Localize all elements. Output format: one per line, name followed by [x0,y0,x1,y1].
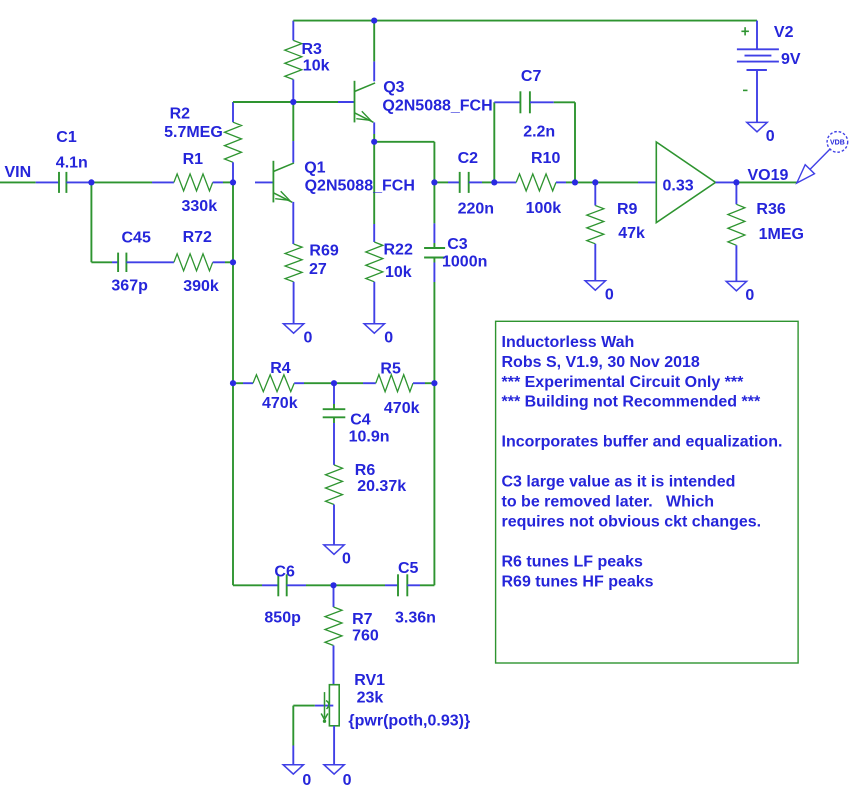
svg-text:C45: C45 [122,230,151,247]
svg-text:C5: C5 [398,560,419,577]
svg-text:VDB: VDB [830,140,845,147]
svg-text:470k: 470k [384,400,420,417]
svg-text:R10: R10 [531,150,560,167]
svg-text:Q1: Q1 [304,160,325,177]
svg-text:C2: C2 [458,150,479,167]
svg-text:0: 0 [302,772,311,789]
svg-text:10.9n: 10.9n [349,429,390,446]
svg-text:R22: R22 [384,242,413,259]
svg-text:C3: C3 [447,236,468,253]
svg-text:100k: 100k [526,200,562,217]
svg-text:R1: R1 [183,151,204,168]
svg-text:R69 tunes HF peaks: R69 tunes HF peaks [502,574,654,591]
svg-text:Q2N5088_FCH: Q2N5088_FCH [305,177,415,194]
svg-text:V2: V2 [774,24,794,41]
svg-text:R4: R4 [270,360,291,377]
svg-text:Inductorless Wah: Inductorless Wah [502,334,635,351]
svg-text:0.33: 0.33 [663,177,694,194]
svg-text:*** Experimental Circuit Only: *** Experimental Circuit Only *** [502,374,745,391]
svg-text:Incorporates buffer and equali: Incorporates buffer and equalization. [502,434,783,451]
svg-text:0: 0 [343,772,352,789]
svg-text:27: 27 [309,261,327,278]
svg-text:requires not obvious ckt chang: requires not obvious ckt changes. [502,514,762,531]
svg-text:10k: 10k [303,58,330,75]
svg-text:R5: R5 [380,361,401,378]
svg-text:R6 tunes LF peaks: R6 tunes LF peaks [502,554,643,571]
svg-text:470k: 470k [262,395,298,412]
svg-text:Robs S, V1.9, 30 Nov 2018: Robs S, V1.9, 30 Nov 2018 [502,354,700,371]
svg-text:0: 0 [304,330,313,347]
svg-text:0: 0 [605,287,614,304]
svg-text:R2: R2 [170,106,191,123]
svg-text:2.2n: 2.2n [523,124,555,141]
svg-text:to be removed later. Which: to be removed later. Which [502,494,715,511]
svg-text:R9: R9 [617,201,638,218]
svg-text:R6: R6 [355,462,376,479]
svg-text:0: 0 [342,551,351,568]
svg-text:Q2N5088_FCH: Q2N5088_FCH [382,97,492,114]
svg-text:C4: C4 [350,412,371,429]
svg-text:760: 760 [352,628,379,645]
svg-text:R36: R36 [756,201,785,218]
svg-text:{pwr(poth,0.93)}: {pwr(poth,0.93)} [348,713,470,730]
svg-text:R72: R72 [183,229,212,246]
svg-text:*** Building not Recommended *: *** Building not Recommended *** [502,394,761,411]
svg-text:220n: 220n [458,200,494,217]
svg-text:R7: R7 [352,611,373,628]
svg-text:10k: 10k [385,264,412,281]
svg-text:VIN: VIN [5,164,32,181]
svg-text:C7: C7 [521,68,542,85]
svg-text:3.36n: 3.36n [395,610,436,627]
svg-text:R3: R3 [302,41,323,58]
svg-text:R69: R69 [309,243,338,260]
svg-text:Q3: Q3 [383,79,404,96]
svg-text:VO19: VO19 [748,167,789,184]
svg-text:47k: 47k [618,225,645,242]
svg-text:0: 0 [384,330,393,347]
svg-text:20.37k: 20.37k [357,478,406,495]
svg-text:1000n: 1000n [442,254,487,271]
svg-text:C3 large value as it is intend: C3 large value as it is intended [502,474,736,491]
svg-text:367p: 367p [111,278,148,295]
svg-text:23k: 23k [357,690,384,707]
svg-text:9V: 9V [781,51,801,68]
svg-text:4.1n: 4.1n [56,155,88,172]
svg-text:0: 0 [766,128,775,145]
svg-text:C6: C6 [274,564,295,581]
svg-text:330k: 330k [182,198,218,215]
svg-text:1MEG: 1MEG [759,226,804,243]
svg-text:390k: 390k [183,278,219,295]
svg-text:0: 0 [745,287,754,304]
svg-text:5.7MEG: 5.7MEG [164,124,223,141]
svg-text:850p: 850p [264,610,301,627]
svg-text:RV1: RV1 [354,672,385,689]
svg-text:C1: C1 [56,129,77,146]
